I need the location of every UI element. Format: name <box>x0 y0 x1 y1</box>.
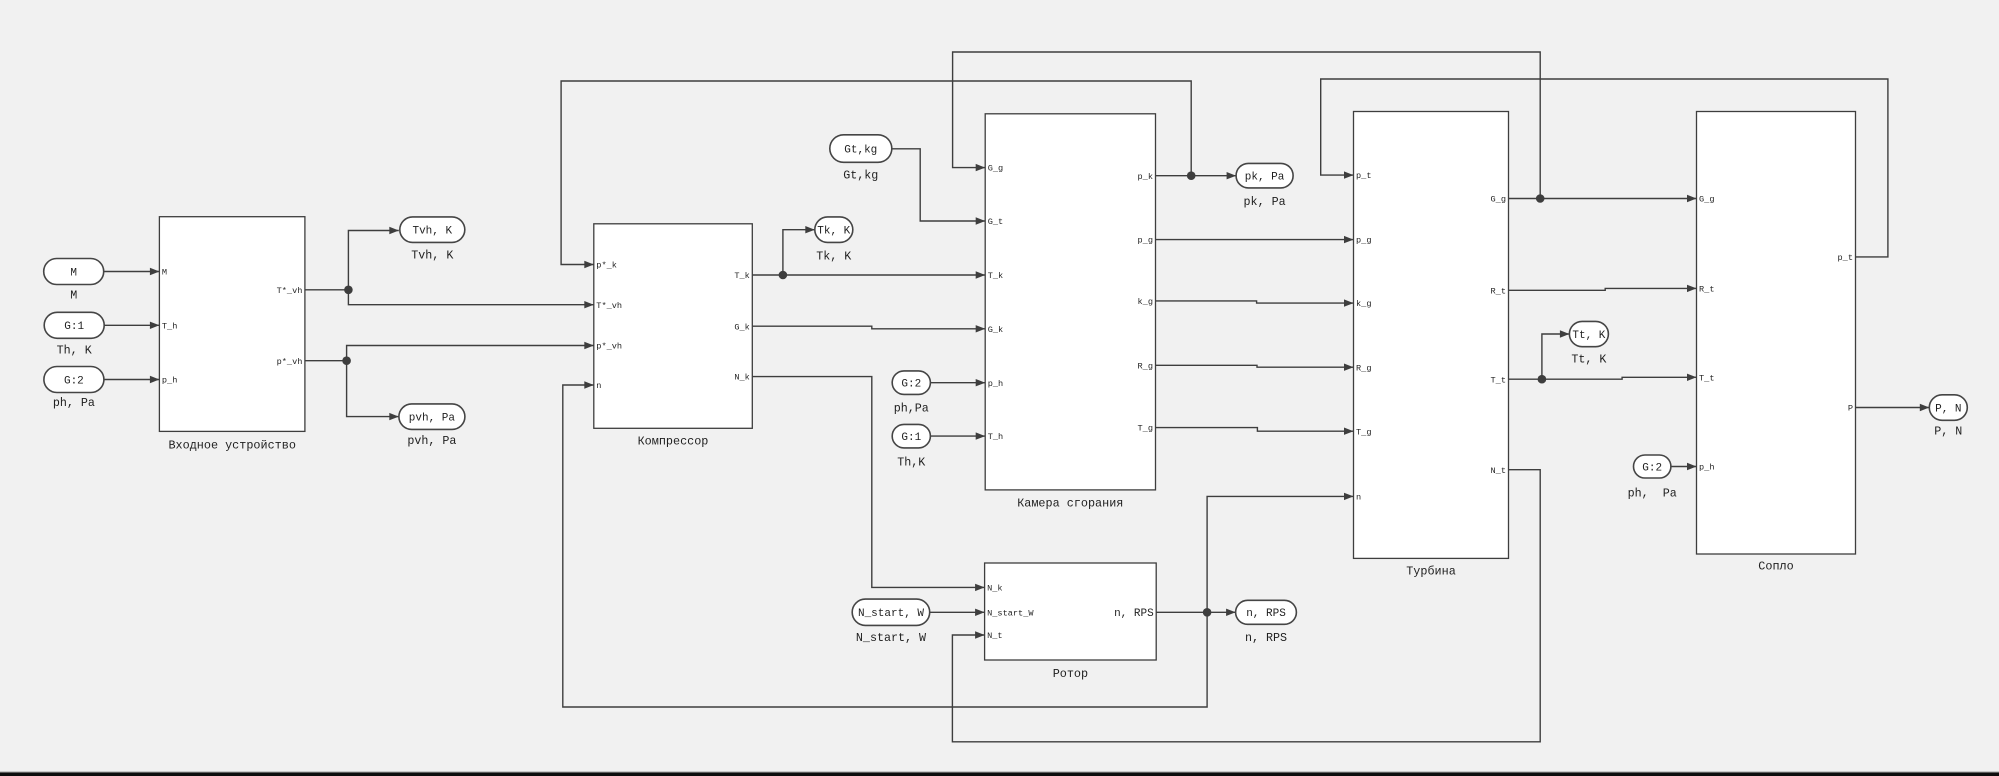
svg-text:G:1: G:1 <box>901 432 921 444</box>
svg-text:T_t: T_t <box>1699 373 1714 383</box>
svg-text:G_g: G_g <box>988 164 1003 174</box>
svg-text:Tt, K: Tt, K <box>1571 352 1606 366</box>
svg-text:P, N: P, N <box>1934 425 1962 439</box>
svg-text:Компрессор: Компрессор <box>638 435 709 449</box>
svg-text:G_t: G_t <box>988 217 1003 227</box>
svg-text:R_t: R_t <box>1699 285 1714 295</box>
svg-text:p*_vh: p*_vh <box>596 342 622 352</box>
svg-text:Gt,kg: Gt,kg <box>844 144 877 156</box>
svg-text:T_h: T_h <box>162 321 177 331</box>
svg-text:G:2: G:2 <box>64 375 84 387</box>
svg-text:Tk, K: Tk, K <box>817 226 850 238</box>
svg-text:n, RPS: n, RPS <box>1246 608 1286 620</box>
svg-text:p_g: p_g <box>1356 236 1371 246</box>
svg-text:Входное устройство: Входное устройство <box>168 438 295 452</box>
svg-text:Tvh, K: Tvh, K <box>411 248 453 262</box>
svg-text:n, RPS: n, RPS <box>1245 631 1287 645</box>
svg-text:Сопло: Сопло <box>1758 560 1793 574</box>
svg-text:R_t: R_t <box>1491 286 1506 296</box>
svg-text:Tk, K: Tk, K <box>816 249 851 263</box>
svg-text:G:1: G:1 <box>64 321 84 333</box>
svg-text:pvh, Pa: pvh, Pa <box>409 413 456 425</box>
svg-text:M: M <box>162 268 167 278</box>
svg-text:R_g: R_g <box>1138 361 1153 371</box>
svg-text:N_start_W: N_start_W <box>987 608 1034 618</box>
svg-text:Th, K: Th, K <box>57 344 92 358</box>
svg-text:p_t: p_t <box>1356 171 1371 181</box>
svg-text:k_g: k_g <box>1138 297 1153 307</box>
svg-text:T*_vh: T*_vh <box>277 286 303 296</box>
svg-text:ph, Pa: ph, Pa <box>53 396 95 410</box>
svg-text:T_k: T_k <box>988 271 1003 281</box>
svg-text:G_g: G_g <box>1699 195 1714 205</box>
svg-text:p*_k: p*_k <box>596 261 617 271</box>
svg-text:G:2: G:2 <box>901 379 921 391</box>
svg-text:p_h: p_h <box>162 376 177 386</box>
svg-text:G_k: G_k <box>988 325 1003 335</box>
svg-text:G:2: G:2 <box>1642 462 1662 474</box>
svg-text:Ротор: Ротор <box>1053 667 1088 681</box>
svg-text:p_h: p_h <box>1699 463 1714 473</box>
svg-text:p_h: p_h <box>988 379 1003 389</box>
svg-text:N_start, W: N_start, W <box>858 608 924 620</box>
svg-text:pvh, Pa: pvh, Pa <box>407 434 456 448</box>
svg-text:Gt,kg: Gt,kg <box>843 169 878 183</box>
svg-text:T_g: T_g <box>1356 427 1371 437</box>
svg-text:M: M <box>70 267 77 279</box>
svg-text:T_g: T_g <box>1138 424 1153 434</box>
svg-text:Tt, K: Tt, K <box>1572 330 1605 342</box>
svg-text:ph,Pa: ph,Pa <box>894 402 929 416</box>
svg-text:k_g: k_g <box>1356 299 1371 309</box>
svg-text:N_k: N_k <box>987 584 1002 594</box>
svg-text:P, N: P, N <box>1935 403 1961 415</box>
svg-text:ph, Pa: ph, Pa <box>1628 487 1677 501</box>
svg-text:p*_vh: p*_vh <box>277 357 303 367</box>
svg-text:p_k: p_k <box>1138 172 1153 182</box>
svg-text:P: P <box>1848 404 1853 414</box>
svg-text:pk, Pa: pk, Pa <box>1245 172 1285 184</box>
svg-text:n, RPS: n, RPS <box>1114 608 1154 620</box>
svg-text:T_t: T_t <box>1491 375 1506 385</box>
svg-text:T*_vh: T*_vh <box>596 301 622 311</box>
svg-text:n: n <box>1356 493 1361 503</box>
svg-text:N_start, W: N_start, W <box>856 631 927 645</box>
svg-text:Th,K: Th,K <box>897 455 925 469</box>
svg-text:M: M <box>70 289 77 303</box>
svg-text:pk, Pa: pk, Pa <box>1244 195 1286 209</box>
svg-text:p_t: p_t <box>1838 253 1853 263</box>
svg-text:T_k: T_k <box>734 271 749 281</box>
svg-text:Камера сгорания: Камера сгорания <box>1017 496 1123 510</box>
svg-text:T_h: T_h <box>988 432 1003 442</box>
svg-text:R_g: R_g <box>1356 363 1371 373</box>
svg-text:N_k: N_k <box>734 373 749 383</box>
svg-text:n: n <box>596 381 601 391</box>
svg-text:G_k: G_k <box>734 322 749 332</box>
svg-text:p_g: p_g <box>1138 236 1153 246</box>
svg-text:N_t: N_t <box>987 631 1002 641</box>
svg-text:N_t: N_t <box>1491 466 1506 476</box>
svg-text:G_g: G_g <box>1491 195 1506 205</box>
svg-text:Турбина: Турбина <box>1406 565 1456 579</box>
svg-text:Tvh, K: Tvh, K <box>412 226 452 238</box>
